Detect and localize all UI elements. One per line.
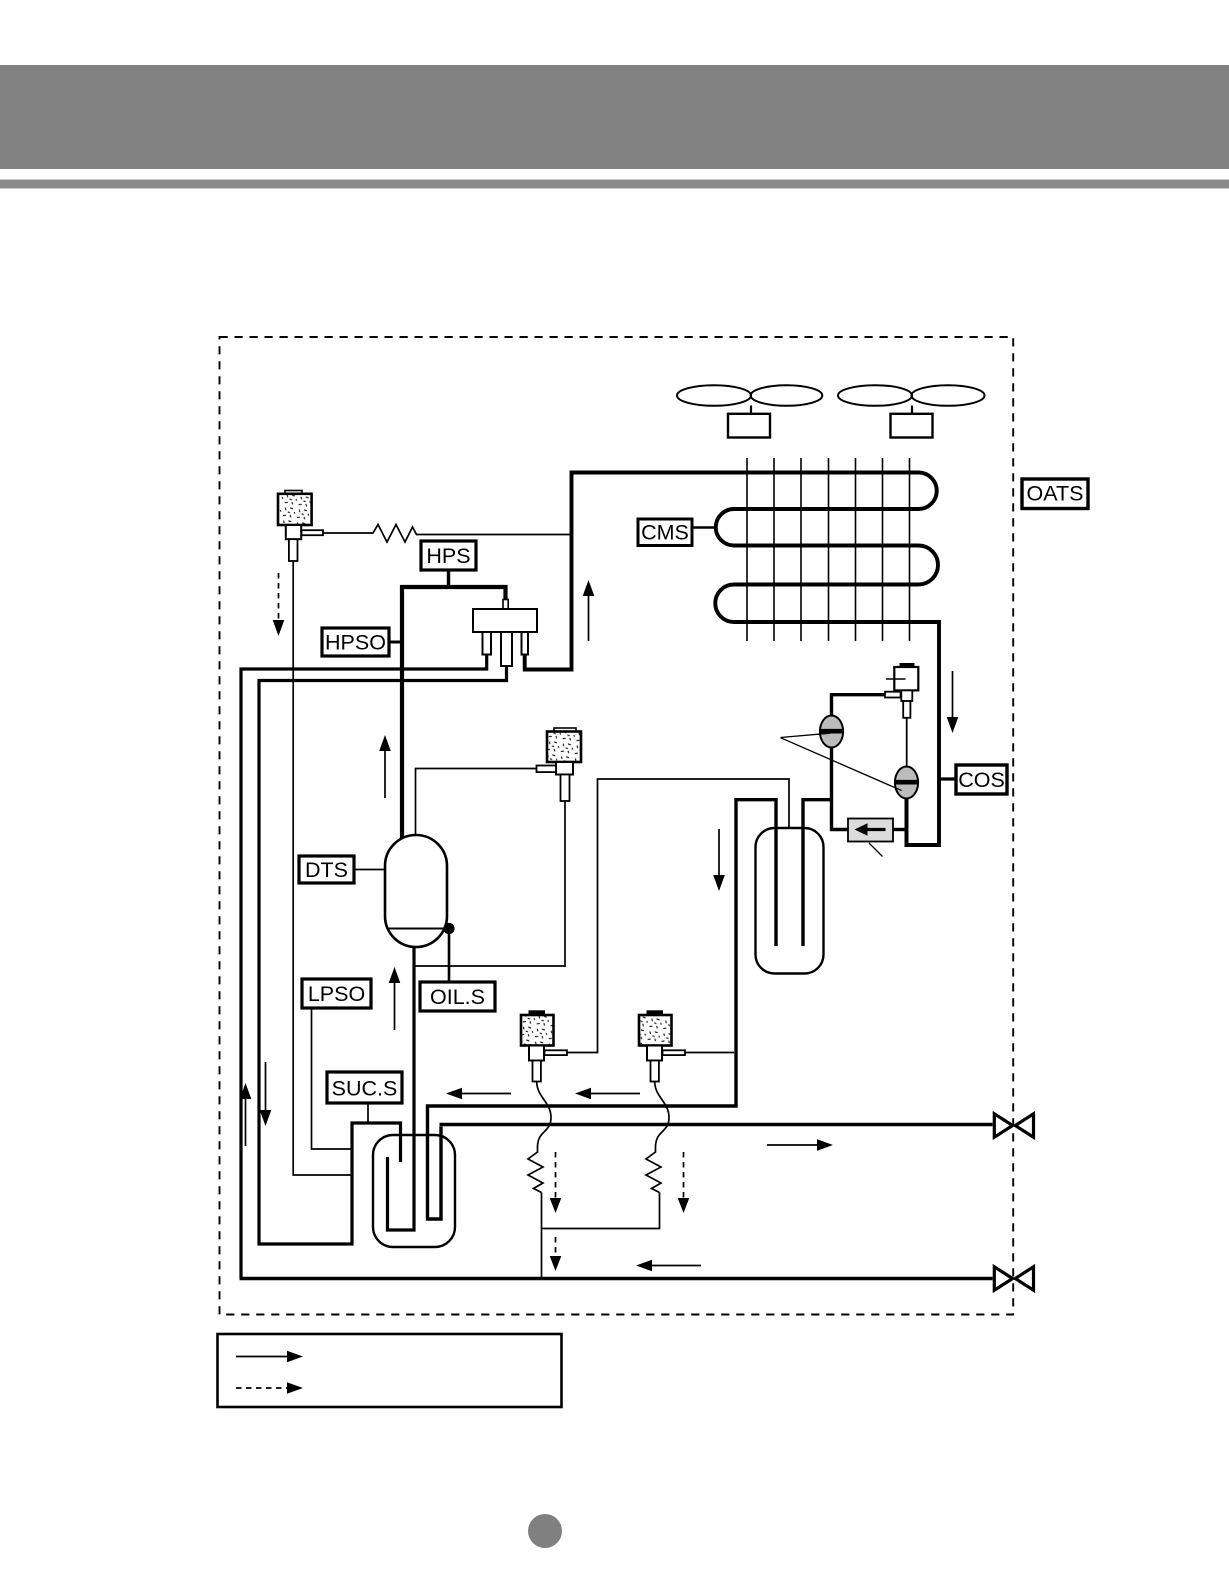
sight glass band <box>820 729 843 734</box>
oil return pipe: separator bottom to U-trap in accumulator <box>388 946 415 1230</box>
suction line service valve (bowtie) <box>994 1267 1033 1290</box>
distributor pipe from TXV 2 joining TXV 1 drop <box>542 1193 660 1229</box>
legend dashed flow arrow <box>236 1387 291 1389</box>
filter drier band <box>895 780 918 785</box>
condenser fan 2 motor <box>891 414 933 438</box>
TXV 2 bulb cap <box>647 1010 664 1015</box>
subcooler heat exchanger <box>848 819 893 842</box>
TXV 1 nozzle <box>545 1050 568 1055</box>
restrictor (capillary zigzag) on TLS sensing line to discharge riser <box>323 525 572 543</box>
wire DTS to oil separator <box>354 869 386 871</box>
label box DTS <box>299 856 354 883</box>
label box HPSO <box>322 628 389 656</box>
liquid line valve V1 cap <box>900 663 915 666</box>
distributor pipe from TXV 1 to suction line <box>541 1193 543 1279</box>
svg-text:OIL.S: OIL.S <box>430 985 485 1009</box>
dashed flow arrow below TLS <box>278 573 280 621</box>
TXV 2 stem <box>651 1061 659 1082</box>
subcooler flow arrow <box>863 828 886 831</box>
flow arrow down (liquid to receiver) <box>718 829 720 877</box>
flow arrow up (hot gas riser) <box>588 594 590 641</box>
unit boundary dashed box <box>220 337 1014 1315</box>
dashed arrow down (TXV1 feed) <box>555 1152 557 1200</box>
condenser fan 1 blades <box>677 385 822 406</box>
TXV 1 outlet S-bend <box>537 1082 551 1148</box>
TXV 1 expansion coil <box>528 1147 543 1193</box>
compressor cylinder leg 3 <box>522 632 529 655</box>
capillary wire from TLS down to suction drop leg <box>293 561 352 1175</box>
condenser fan 1 motor <box>728 414 770 438</box>
wire valve V1 stem to drier <box>906 718 908 767</box>
TXV 1 valve body <box>529 1046 544 1061</box>
compressor cylinder leg 1 <box>483 632 492 655</box>
flow arrow up (oil return) <box>394 981 396 1030</box>
liquid line valve V1 outlet nozzle <box>885 692 901 698</box>
flow arrow down (suction to accumulator) <box>265 1062 267 1112</box>
TXV 2 outlet S-bend <box>655 1082 669 1148</box>
oil separator oil level line <box>388 928 445 930</box>
oil pickup junction node <box>443 923 454 934</box>
leader line to subcooler <box>869 843 883 857</box>
label box OIL.S <box>420 982 495 1011</box>
branch pipe to receiver right dip tube <box>803 800 832 946</box>
condenser coil serpentine with discharge riser and liquid drop leg <box>525 473 939 846</box>
suction line from service valve to compressor riser <box>240 1277 993 1280</box>
svg-text:SUC.S: SUC.S <box>332 1077 398 1101</box>
wire subcooler outlet to drop leg <box>893 828 907 831</box>
legend box <box>218 1334 562 1407</box>
TXV 1 bulb cap <box>529 1010 546 1015</box>
oil separator temperature sensor body <box>547 732 581 763</box>
wire COS to condenser drop leg <box>939 777 956 780</box>
suction pipe from accumulator to compressor leg 2 <box>259 666 507 1244</box>
oil separator sensor valve body <box>556 762 573 775</box>
condenser fins <box>747 458 910 641</box>
svg-text:DTS: DTS <box>305 858 348 882</box>
flow arrow right (liquid line out) <box>767 1144 820 1146</box>
TXV 2 capillary to liquid drop pipe <box>685 1052 734 1054</box>
legend solid flow arrow <box>236 1356 291 1358</box>
leader line to filter drier <box>781 738 902 791</box>
equalizer capillary from TXV1 bulb into receiver top <box>567 779 789 1053</box>
label box COS <box>956 765 1007 794</box>
TXV 1 stem <box>533 1061 541 1082</box>
condenser fan 2 shaft <box>911 406 913 415</box>
TXV 2 nozzle <box>663 1050 686 1055</box>
wire SUC.S to suction header <box>367 1103 369 1122</box>
liquid pipe from valve nozzle through sight glass to subcooler <box>832 695 886 716</box>
receiver vessel <box>756 828 824 974</box>
svg-text:HPS: HPS <box>426 544 470 568</box>
capillary wire from sensor stem to oil return pipe <box>416 801 566 966</box>
sensing tube from separator top to DTS sensor bulb <box>416 769 537 836</box>
page header thin gray rule <box>0 180 1229 189</box>
svg-text:COS: COS <box>958 768 1005 792</box>
compressor cylinder leg 2 <box>501 632 512 666</box>
TXV 2 expansion coil <box>646 1147 661 1193</box>
flow arrow left (suction return) <box>649 1265 701 1267</box>
suction accumulator vessel <box>373 1135 455 1247</box>
filter drier (right oval) <box>895 767 918 799</box>
oil separator temperature sensor cap <box>554 728 576 732</box>
TXV 1 bulb <box>521 1015 554 1046</box>
liquid line valve V1 stem upper <box>901 690 912 701</box>
wire CMS to coil <box>692 526 717 529</box>
wire HPSO to discharge pipe <box>389 641 402 644</box>
compressor manifold <box>473 609 537 632</box>
suction pipe from remote line up to compressor leg 1 <box>241 655 487 1279</box>
liquid line valve V1 stem lower <box>903 701 910 718</box>
wire oil pickup to OIL.S <box>448 931 451 982</box>
liquid-injection solenoid TLS outlet nozzle <box>302 530 324 535</box>
leader line to sight glass <box>781 733 831 737</box>
svg-text:CMS: CMS <box>641 521 689 545</box>
compressor discharge stub <box>503 600 508 610</box>
label box CMS <box>638 519 692 546</box>
sight glass (left oval) <box>820 716 843 748</box>
svg-text:LPSO: LPSO <box>308 982 365 1006</box>
svg-text:HPSO: HPSO <box>325 631 386 655</box>
liquid line out to service valve <box>440 1123 993 1126</box>
liquid line valve V1 handle line <box>886 678 906 680</box>
TXV 2 bulb <box>639 1015 672 1046</box>
liquid pipe sight glass down to heat exchanger <box>832 748 849 830</box>
page number circle <box>528 1514 562 1548</box>
receiver right dip tube (already piped) left dip tube outlet to liquid drop pipe <box>428 800 777 1219</box>
liquid-injection solenoid TLS valve body <box>286 525 301 539</box>
liquid-injection solenoid TLS coil body <box>278 494 312 525</box>
label box HPS <box>421 541 476 570</box>
liquid-injection solenoid TLS cap <box>285 491 302 494</box>
dashed arrow down (TXV2 feed) <box>683 1152 685 1200</box>
label box LPSO <box>302 979 371 1008</box>
oil separator sensor stem <box>561 775 570 802</box>
oil separator vessel <box>385 835 447 947</box>
liquid line service valve (bowtie) <box>994 1114 1033 1137</box>
liquid-injection solenoid TLS stem <box>289 539 298 561</box>
dashed arrow down (distributor drop) <box>555 1237 557 1258</box>
discharge header pipe from manifold to oil separator <box>402 587 506 841</box>
pipe filter drier down to corner <box>905 799 909 847</box>
label box OATS <box>1022 479 1088 509</box>
flow arrow left (suction header 2) <box>588 1093 640 1095</box>
flow arrow up (discharge to separator) <box>384 749 386 798</box>
flow arrow left (suction header 1) <box>459 1093 511 1095</box>
svg-text:OATS: OATS <box>1027 482 1084 506</box>
TXV 2 valve body <box>647 1046 662 1061</box>
page header gray band <box>0 65 1229 169</box>
flow arrow down (condenser outlet) <box>952 671 954 719</box>
wire HPS to discharge header <box>447 570 450 586</box>
condenser fan 2 blades <box>838 385 985 406</box>
flow arrow up (suction riser) <box>245 1097 247 1146</box>
wire LPSO to suction drop leg <box>312 1008 353 1149</box>
condenser fan 1 shaft <box>750 406 752 415</box>
liquid line valve V1 body <box>894 667 918 690</box>
oil separator sensor nozzle <box>537 766 557 773</box>
label box SUC.S <box>327 1072 402 1103</box>
